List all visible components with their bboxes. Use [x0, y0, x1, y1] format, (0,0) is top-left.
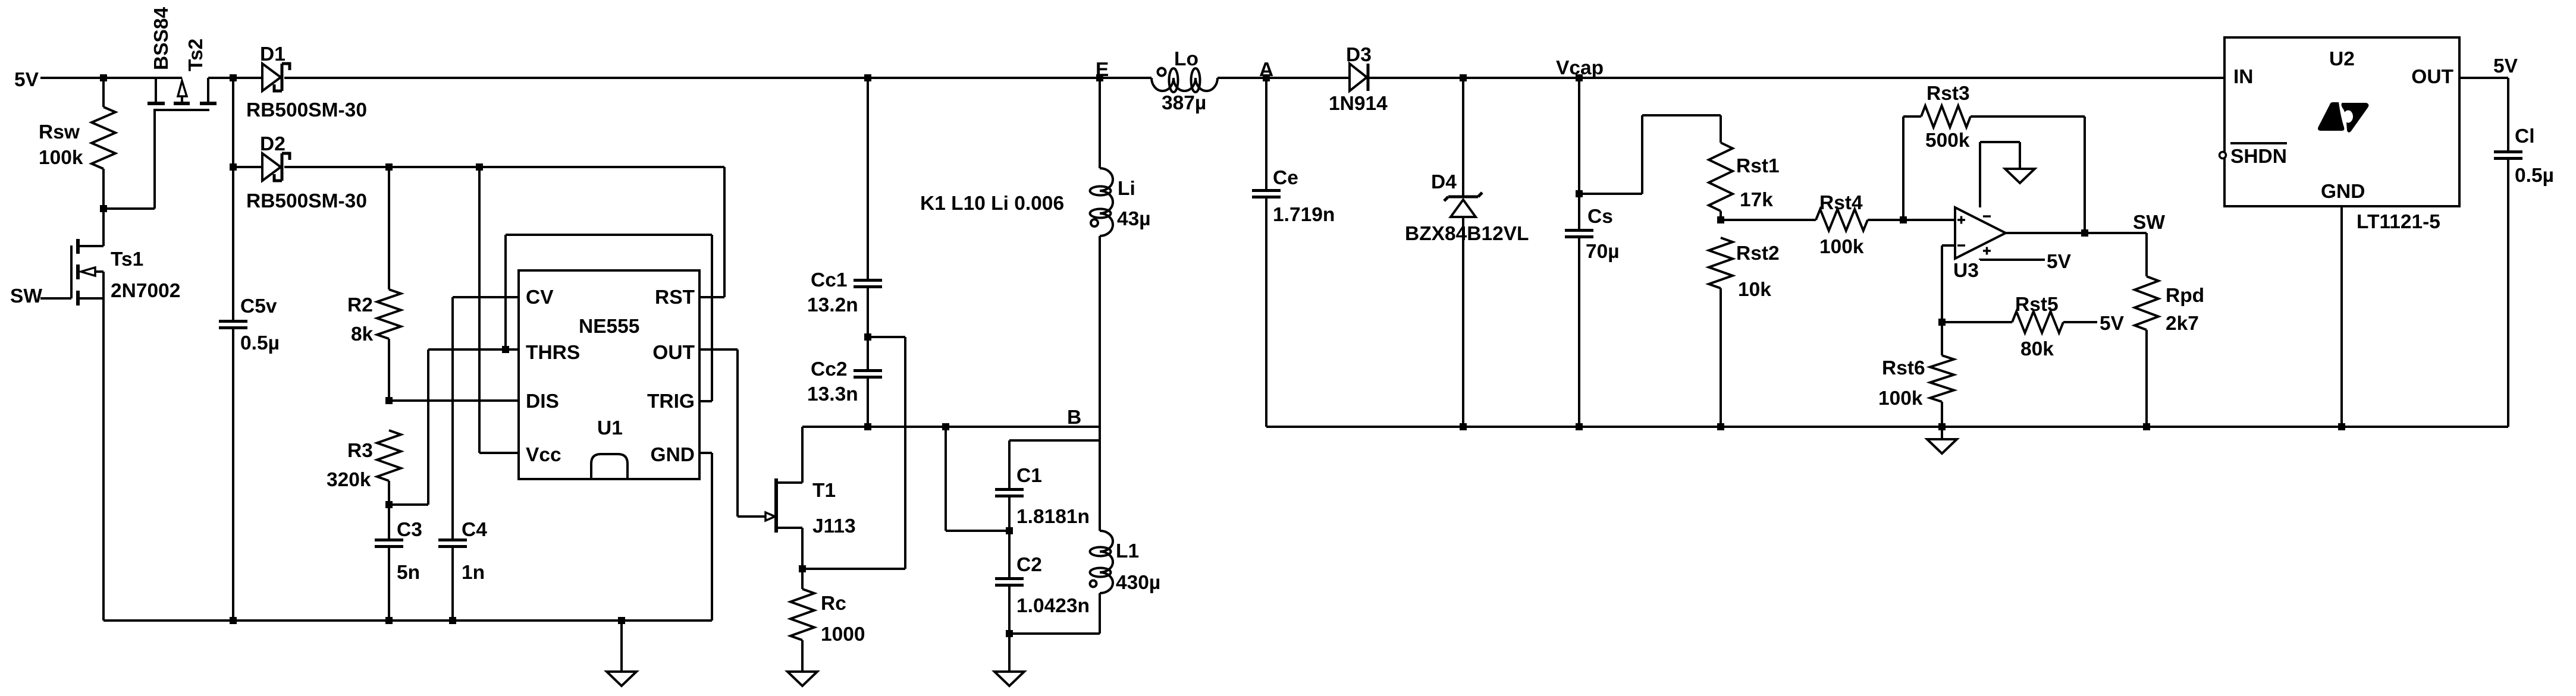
- svg-text:GND: GND: [651, 444, 695, 466]
- wire Rst3 down to output: [2084, 116, 2086, 233]
- svg-text:OUT: OUT: [2411, 66, 2453, 88]
- svg-text:Lo: Lo: [1174, 48, 1198, 70]
- node junction Rpd bottom: [2143, 423, 2150, 430]
- svg-text:Vcap: Vcap: [1556, 57, 1604, 79]
- wire OUT pin to T1 gate: [699, 348, 738, 351]
- node junction D4 bottom: [1460, 423, 1467, 430]
- op-amp U2 box: [2224, 37, 2459, 206]
- wire Cs bottom: [1578, 238, 1580, 427]
- svg-text:0.5µ: 0.5µ: [2515, 165, 2554, 187]
- svg-text:5V: 5V: [14, 69, 39, 91]
- node junction T1 source: [799, 565, 806, 572]
- svg-text:C3: C3: [397, 519, 422, 541]
- svg-text:5V: 5V: [2047, 251, 2072, 273]
- svg-text:DIS: DIS: [526, 390, 559, 412]
- svg-text:70µ: 70µ: [1586, 241, 1620, 263]
- resistor Rpd: [2135, 276, 2158, 330]
- wire Cc branch from rail: [867, 78, 869, 279]
- svg-text:Cc2: Cc2: [811, 358, 847, 380]
- node junction Cs bottom: [1576, 423, 1583, 430]
- diode D2: [262, 153, 281, 181]
- svg-text:Cs: Cs: [1587, 206, 1613, 228]
- resistor R2: [377, 289, 401, 339]
- svg-text:R3: R3: [347, 440, 373, 462]
- transistor Ts1 drain wire: [79, 245, 103, 247]
- svg-text:Rst2: Rst2: [1736, 243, 1780, 264]
- svg-text:10k: 10k: [1738, 279, 1771, 301]
- wire D4 cathode down: [1462, 217, 1464, 427]
- wire op-amp output SW net: [2006, 232, 2147, 234]
- resistor Rst4: [1816, 209, 1868, 231]
- svg-text:1.0423n: 1.0423n: [1016, 595, 1090, 617]
- svg-text:E: E: [1096, 59, 1109, 81]
- svg-text:Cl: Cl: [2515, 125, 2535, 147]
- wire op-amp top supply pin to ground: [1979, 142, 1981, 207]
- wire Vcap to Cs: [1578, 78, 1580, 229]
- wire Cs branch to Rst1: [1579, 193, 1642, 195]
- wire THRS pin: [428, 348, 519, 351]
- svg-text:B: B: [1067, 407, 1081, 429]
- resistor Rsw: [92, 107, 115, 169]
- svg-text:C5v: C5v: [240, 295, 277, 317]
- wire node B net: [802, 426, 1100, 428]
- node junction Rsw top: [100, 74, 107, 81]
- node junction Cs top branch: [1576, 190, 1583, 197]
- wire Vcc pin: [478, 167, 481, 453]
- svg-text:Rst4: Rst4: [1819, 192, 1863, 214]
- op-amp U1 NE555 box: [519, 270, 699, 479]
- node junction DIS: [385, 397, 393, 404]
- svg-text:0.5µ: 0.5µ: [240, 332, 280, 354]
- node junction C5v bottom: [230, 617, 237, 624]
- wire Cc2 bottom to B: [867, 379, 869, 427]
- resistor Rc: [790, 589, 814, 640]
- svg-text:320k: 320k: [327, 469, 371, 491]
- svg-text:430µ: 430µ: [1116, 572, 1160, 594]
- svg-text:2N7002: 2N7002: [111, 280, 180, 302]
- capacitor C2: [995, 577, 1024, 580]
- node junction Rst1/Rst2/Rst4: [1717, 216, 1724, 223]
- svg-text:BSS84: BSS84: [150, 7, 172, 70]
- wire ground rail right section: [1266, 426, 2508, 428]
- wire rail Lo to D3: [1218, 77, 1350, 79]
- node junction R2 top: [385, 163, 393, 171]
- svg-text:100k: 100k: [1878, 388, 1923, 410]
- ground below Rst6: [1941, 427, 1943, 439]
- svg-text:17k: 17k: [1740, 189, 1773, 211]
- svg-text:L1: L1: [1116, 540, 1139, 562]
- svg-text:100k: 100k: [1819, 236, 1864, 258]
- wire TRIG pin: [699, 400, 712, 402]
- capacitor C4: [438, 538, 467, 541]
- ground left section: [620, 621, 623, 672]
- svg-text:T1: T1: [812, 480, 836, 502]
- wire Rsw bottom to Ts2 gate: [103, 207, 155, 210]
- wire D2 cathode net: [284, 166, 724, 168]
- svg-text:D3: D3: [1346, 44, 1372, 66]
- svg-text:43µ: 43µ: [1117, 208, 1151, 230]
- wire +input riser to Rst3: [1902, 116, 1904, 220]
- node junction D4 branch: [1460, 74, 1467, 81]
- transistor Ts2 source stub: [155, 78, 157, 102]
- op-amp U2 pin SHDN circle: [2220, 152, 2226, 159]
- svg-text:SW: SW: [2133, 212, 2165, 234]
- wire op-amp +input: [1903, 219, 1955, 221]
- transistor Ts1 body arrow: [95, 270, 103, 273]
- svg-text:Rpd: Rpd: [2166, 285, 2204, 307]
- transistor Ts1 drain bar: [76, 239, 80, 254]
- node junction op-amp output: [2081, 229, 2088, 237]
- inductor Lo phase dot: [1158, 68, 1166, 76]
- wire tank bottom edge: [1009, 632, 1100, 635]
- svg-text:80k: 80k: [2020, 338, 2054, 360]
- svg-text:OUT: OUT: [652, 342, 695, 364]
- svg-text:THRS: THRS: [526, 342, 580, 364]
- transistor Ts1 source bar: [76, 291, 80, 306]
- wire DIS pin: [389, 399, 519, 402]
- wire B to C1/C2 midpoint: [945, 427, 947, 531]
- wire SW to Ts1 gate: [40, 297, 71, 300]
- svg-text:TRIG: TRIG: [647, 390, 695, 412]
- diode D4 anode wire: [1462, 78, 1464, 197]
- svg-text:J113: J113: [812, 515, 856, 537]
- op-amp U3 minus input mark: [1957, 244, 1965, 247]
- wire CV pin: [453, 296, 519, 298]
- node junction B to C1C2 mid: [942, 423, 949, 430]
- op-amp U3 triangle: [1955, 207, 2006, 259]
- ground below Rc: [787, 672, 817, 686]
- node junction C4 bottom: [449, 617, 456, 624]
- svg-text:R2: R2: [347, 294, 373, 316]
- wire Cc1 to Cc2: [867, 288, 869, 369]
- op-amp U2 logo LT: [2318, 102, 2344, 131]
- svg-text:NE555: NE555: [579, 316, 639, 338]
- op-amp U3 plus input mark: [1957, 216, 1965, 224]
- capacitor Cl: [2494, 150, 2522, 153]
- svg-text:LT1121-5: LT1121-5: [2357, 211, 2440, 233]
- svg-text:Rst6: Rst6: [1882, 357, 1925, 379]
- wire rail D3 cathode to U2 IN: [1369, 77, 2224, 79]
- transistor Ts1 gate line: [70, 245, 73, 298]
- wire R3 bottom to THRS riser: [389, 503, 428, 506]
- node junction R3 bottom: [385, 501, 393, 508]
- node junction op-amp +input: [1900, 216, 1907, 223]
- wire T1 source to Cc2 riser: [802, 568, 905, 570]
- wire C5v/D2 branch vertical: [232, 78, 234, 167]
- node junction Rsw bottom / Ts1 drain / Ts2 gate: [100, 205, 107, 212]
- transistor Ts2 body arrow: [181, 96, 183, 102]
- wire D2 anode: [233, 166, 262, 168]
- svg-text:1000: 1000: [821, 623, 865, 645]
- wire ground rail left section: [103, 619, 712, 622]
- node junction D2 anode: [230, 163, 237, 171]
- node junction THRS: [502, 346, 509, 353]
- svg-text:RB500SM-30: RB500SM-30: [246, 190, 367, 212]
- diode D3: [1350, 64, 1367, 91]
- resistor Rst5: [2012, 311, 2063, 333]
- svg-text:1.8181n: 1.8181n: [1016, 506, 1090, 528]
- transistor Ts2 gate wire: [153, 110, 156, 209]
- svg-text:Rc: Rc: [821, 593, 846, 615]
- svg-text:D4: D4: [1431, 171, 1457, 193]
- node junction Rst6 bottom: [1938, 423, 1946, 430]
- svg-text:Rst3: Rst3: [1926, 83, 1970, 105]
- svg-text:Rst1: Rst1: [1736, 155, 1780, 177]
- node E junction: [1096, 74, 1103, 81]
- svg-text:BZX84B12VL: BZX84B12VL: [1405, 223, 1529, 245]
- svg-text:2k7: 2k7: [2166, 313, 2199, 335]
- node junction -input/Rst5/Rst6: [1938, 319, 1946, 326]
- inductor Li: [1100, 168, 1113, 236]
- wire U2 GND pin: [2340, 206, 2343, 427]
- wire 5V rail left segment: [40, 77, 182, 79]
- node junction Cc2/B: [864, 423, 871, 430]
- wire C5v bottom: [232, 329, 234, 621]
- svg-text:387µ: 387µ: [1162, 92, 1206, 114]
- svg-text:GND: GND: [2321, 181, 2365, 203]
- wire op-amp bottom supply pin to 5V: [1979, 259, 1981, 260]
- inductor L1 phase dot: [1090, 581, 1097, 587]
- node junction Cc1/Cc2: [864, 333, 871, 341]
- capacitor Cs: [1565, 229, 1593, 232]
- wire op-amp -input: [1942, 244, 1955, 247]
- svg-text:1.719n: 1.719n: [1273, 204, 1335, 226]
- node junction D1/D2/C5v branch: [230, 74, 237, 81]
- transistor Ts2 body bar: [174, 102, 190, 105]
- ground op-amp supply: [2005, 169, 2035, 183]
- svg-text:Ce: Ce: [1273, 167, 1298, 189]
- wire U2 OUT to Cl: [2459, 77, 2508, 79]
- node junction Rst2 bottom: [1717, 423, 1724, 430]
- op-amp U3 vplus mark: [1983, 247, 1991, 255]
- resistor R3: [377, 430, 401, 481]
- svg-text:Rst5: Rst5: [2015, 294, 2059, 316]
- transistor Ts2 source bar: [148, 102, 165, 105]
- wire RST pin: [699, 296, 724, 298]
- svg-text:RST: RST: [655, 286, 695, 308]
- wire D2 junction to C5v: [232, 167, 234, 320]
- wire E to Li: [1099, 78, 1101, 168]
- transistor Ts1 source wire: [79, 297, 103, 300]
- svg-text:Ts2: Ts2: [185, 39, 207, 71]
- capacitor Cc1: [854, 279, 882, 282]
- inductor Lo: [1151, 78, 1218, 91]
- node junction C3 bottom: [385, 617, 393, 624]
- resistor Rst2: [1709, 238, 1733, 288]
- svg-text:Rsw: Rsw: [39, 121, 80, 143]
- capacitor C1: [995, 488, 1024, 491]
- node junction ground symbol: [618, 617, 625, 624]
- node junction Cc1 branch: [864, 74, 871, 81]
- transistor T1 channel bar: [774, 478, 778, 533]
- svg-text:Cc1: Cc1: [811, 269, 847, 291]
- svg-text:CV: CV: [526, 286, 554, 308]
- svg-text:C2: C2: [1016, 554, 1042, 576]
- svg-text:13.3n: 13.3n: [807, 383, 858, 405]
- transistor T1 source wire: [777, 527, 802, 529]
- svg-text:500k: 500k: [1925, 130, 1970, 152]
- inductor L1: [1100, 531, 1113, 593]
- wire THRS over-the-top to TRIG: [504, 235, 507, 349]
- node junction Vcc branch: [476, 163, 483, 171]
- svg-text:Vcc: Vcc: [526, 444, 561, 466]
- wire rail Ts2 drain to D1: [208, 77, 262, 79]
- transistor T1 gate arrow: [765, 512, 775, 521]
- svg-text:8k: 8k: [351, 323, 374, 345]
- svg-text:A: A: [1259, 59, 1273, 81]
- svg-text:U2: U2: [2329, 48, 2355, 70]
- svg-text:5V: 5V: [2100, 313, 2125, 335]
- wire GND pin: [699, 452, 712, 454]
- svg-text:SHDN: SHDN: [2230, 146, 2287, 168]
- svg-text:Ts1: Ts1: [111, 248, 143, 270]
- resistor Rst6: [1930, 355, 1954, 402]
- svg-text:U3: U3: [1953, 260, 1979, 282]
- svg-text:SW: SW: [10, 285, 42, 307]
- transistor T1 drain wire: [777, 481, 802, 484]
- svg-text:C1: C1: [1016, 465, 1042, 487]
- svg-text:D2: D2: [260, 133, 285, 155]
- op-amp U3 vminus mark: [1983, 215, 1991, 218]
- transistor Ts2 drain bar: [200, 102, 217, 105]
- node junction U2 GND: [2338, 423, 2345, 430]
- capacitor Ce: [1252, 189, 1281, 192]
- svg-text:1N914: 1N914: [1329, 93, 1388, 115]
- svg-text:5n: 5n: [397, 562, 420, 584]
- resistor Rst3: [1921, 106, 1971, 127]
- svg-text:IN: IN: [2233, 66, 2254, 88]
- node Vcap junction: [1576, 74, 1583, 81]
- wire Cl bottom: [2507, 160, 2509, 427]
- capacitor Cc2: [854, 369, 882, 372]
- inductor Li phase dot: [1091, 219, 1098, 226]
- svg-text:K1 L10 Li 0.006: K1 L10 Li 0.006: [920, 193, 1064, 215]
- node junction C2 bottom: [1006, 630, 1013, 637]
- svg-text:Li: Li: [1118, 178, 1135, 200]
- capacitor C3: [375, 538, 403, 541]
- wire tank top edge: [1009, 439, 1100, 442]
- diode D4 zener: [1444, 193, 1482, 201]
- capacitor C5v: [219, 320, 247, 323]
- svg-text:U1: U1: [597, 417, 623, 439]
- svg-text:100k: 100k: [39, 147, 83, 169]
- svg-text:5V: 5V: [2493, 55, 2518, 77]
- wire Li to tank: [1099, 236, 1101, 531]
- diode D1: [262, 64, 281, 91]
- svg-text:1n: 1n: [462, 562, 485, 584]
- node A junction: [1263, 74, 1270, 81]
- svg-text:D1: D1: [260, 43, 285, 65]
- resistor Rst1: [1709, 143, 1733, 211]
- wire rail D1 cathode to Lo: [284, 77, 1151, 79]
- node junction C1/C2: [1006, 527, 1013, 534]
- svg-text:C4: C4: [462, 519, 487, 541]
- transistor Ts2 drain stub: [207, 78, 209, 102]
- ground below C2: [1008, 634, 1011, 672]
- wire L1 bottom: [1099, 593, 1101, 634]
- wire Ts1 source down to ground rail: [102, 272, 105, 621]
- svg-text:13.2n: 13.2n: [807, 294, 858, 316]
- svg-text:RB500SM-30: RB500SM-30: [246, 99, 367, 121]
- transistor Ts1 body bar: [76, 264, 80, 279]
